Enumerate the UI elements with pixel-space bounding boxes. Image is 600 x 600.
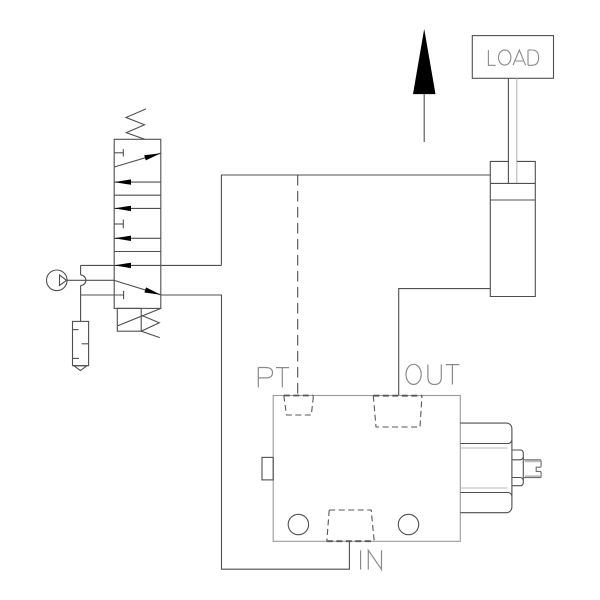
cylinder xyxy=(490,161,535,296)
position 1 horizontal flow arrow xyxy=(114,179,161,184)
solenoid box xyxy=(117,308,141,331)
load arrow xyxy=(413,29,436,142)
wire valve port B to IN xyxy=(161,295,350,569)
position 2 flow arrow upper xyxy=(114,206,161,211)
manifold block xyxy=(273,396,460,542)
pump outlet line with hop crossing xyxy=(67,279,115,281)
PT port xyxy=(284,396,314,416)
position 3 through wire with arrow xyxy=(81,263,222,268)
locknut small hex xyxy=(512,450,523,486)
bolt hole left xyxy=(288,514,308,534)
piston rod xyxy=(508,78,516,183)
LOAD box xyxy=(472,36,553,79)
wire valve port A to cylinder top xyxy=(221,175,490,265)
position 2 blocked port tick xyxy=(114,220,123,229)
OUT port xyxy=(373,396,422,427)
solenoid diagonal / spring segment 1 xyxy=(117,308,161,326)
valve division line 1 xyxy=(114,194,161,196)
PT label xyxy=(258,368,289,388)
adjustment screw large hex xyxy=(460,423,512,513)
vertical pipe with crossover hop xyxy=(81,265,86,321)
position 2 flow arrow lower xyxy=(114,236,161,241)
position 1 diagonal flow arrow xyxy=(114,153,161,167)
position 1 blocked port tick xyxy=(114,149,123,156)
LOAD label xyxy=(488,50,538,65)
valve spring top xyxy=(126,109,146,139)
position 3 blocked port tick xyxy=(81,291,124,299)
IN label xyxy=(361,550,382,569)
pump xyxy=(47,270,68,291)
screw tip with slot xyxy=(523,460,541,478)
valve spring bottom xyxy=(141,315,160,337)
wire cylinder bottom to OUT xyxy=(399,289,491,396)
piston xyxy=(490,183,535,200)
valve body box xyxy=(114,139,161,308)
bolt hole right xyxy=(398,514,418,534)
left plug on block xyxy=(262,457,273,480)
OUT label xyxy=(406,364,459,384)
position 3 diagonal flow arrow xyxy=(114,280,161,294)
filter / muffler xyxy=(73,321,89,370)
pilot dashed line xyxy=(297,175,299,396)
valve division line 2 xyxy=(114,251,161,253)
IN port xyxy=(327,510,374,541)
